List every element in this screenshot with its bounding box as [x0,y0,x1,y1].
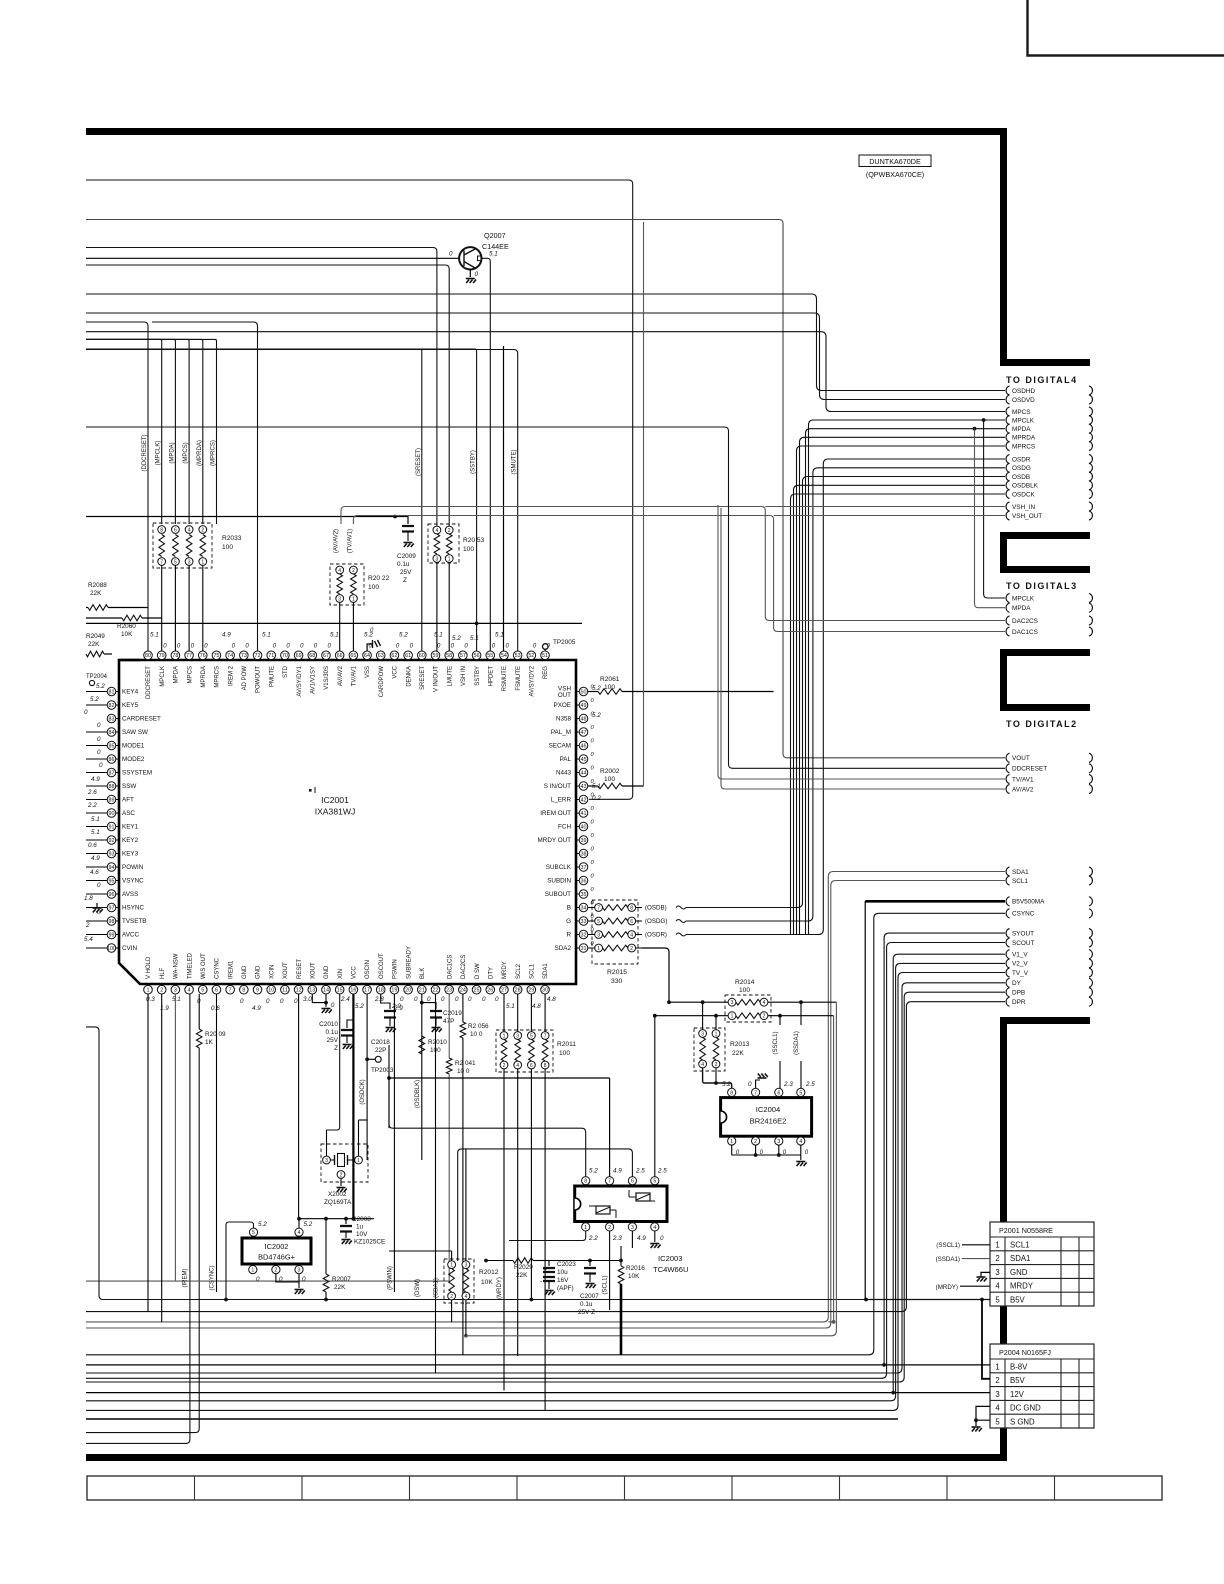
svg-text:1: 1 [352,596,355,602]
thick VCC column pin16 [352,994,354,1219]
svg-text:SYOUT: SYOUT [1012,930,1034,937]
wires MPCLK MPDA MPRDA MPRCS to DIGITAL4 [809,420,1006,935]
svg-text:19: 19 [391,988,397,994]
svg-text:34: 34 [581,905,587,911]
svg-text:0: 0 [400,996,404,1003]
svg-text:0: 0 [97,749,101,756]
svg-text:GND: GND [324,965,330,979]
svg-text:BD4746G+: BD4746G+ [258,1253,295,1262]
svg-text:85: 85 [109,743,115,749]
svg-text:1: 1 [357,1158,360,1164]
svg-text:POWIN: POWIN [122,864,144,871]
IC2001 IXA381WJ main IC body [119,660,576,984]
svg-text:MPCS: MPCS [1012,409,1030,416]
page corner box top right [1028,0,1224,56]
svg-text:0: 0 [455,996,459,1003]
Q2007 collector wire to pin55 column [482,258,491,651]
svg-text:8: 8 [730,1090,733,1096]
ground at left pin HSYNC [96,903,98,907]
resistor R2010 100 on pin21 column [419,1036,447,1054]
svg-text:41: 41 [581,811,587,817]
svg-text:R2002: R2002 [600,768,620,775]
wire V2_V riser [86,963,1005,1400]
svg-text:3: 3 [325,1158,328,1164]
R2013 bottoms to IC2004 pin8 [703,1068,732,1089]
svg-text:24: 24 [460,988,466,994]
svg-text:KEY1: KEY1 [122,824,139,831]
svg-text:OSDBLK: OSDBLK [1012,483,1039,490]
svg-text:HPDET: HPDET [488,666,494,687]
svg-text:40: 40 [581,824,587,830]
svg-text:AV1/V1SY: AV1/V1SY [310,666,316,694]
svg-text:100: 100 [604,776,615,783]
column x502 to pin54 [503,346,505,651]
wires y336-346 to pin79-75 columns MPCLK MPDA MPCS MPRDA MPRCS [86,339,162,524]
test point TP2005 [543,644,549,650]
svg-text:35: 35 [581,892,587,898]
resistor network R2011 100 (pins 27-30) [496,994,576,1072]
svg-text:SAW SW: SAW SW [122,729,148,736]
svg-text:61: 61 [405,653,411,659]
svg-text:65: 65 [350,653,356,659]
wire CSYNC riser [86,913,1005,1355]
svg-text:D SW: D SW [475,963,481,979]
wire DPR riser [86,1002,1005,1312]
svg-text:V1S/30S: V1S/30S [324,666,330,690]
svg-text:5.2: 5.2 [355,1003,364,1010]
IC2003 pin2 wire to SCL1 [609,1231,611,1310]
ground above pin 64 VSS [367,644,372,651]
svg-text:5.2: 5.2 [592,712,601,719]
wire SDA1 riser [86,872,1005,1322]
svg-text:330: 330 [611,978,623,985]
connector pin B5V500MA (TO DIGITAL2) [1006,897,1009,906]
svg-text:R2029: R2029 [514,1264,533,1271]
svg-text:2: 2 [448,528,451,534]
svg-text:CVIN: CVIN [122,945,137,952]
svg-text:10 0: 10 0 [470,1031,483,1038]
svg-text:(SSDA1): (SSDA1) [936,1256,960,1263]
svg-text:8: 8 [160,527,163,533]
svg-text:2: 2 [763,1014,766,1020]
wire TV_V riser [86,973,1005,1411]
svg-text:L_ERR: L_ERR [551,797,572,804]
svg-text:6: 6 [631,1179,634,1185]
net label (SSCL1) [779,1016,781,1025]
svg-text:5.1: 5.1 [172,996,181,1003]
svg-text:49: 49 [581,703,587,709]
svg-text:MPRCS: MPRCS [215,666,221,688]
Q2007 emitter ground [469,270,471,278]
svg-text:TP2005: TP2005 [553,639,576,646]
svg-text:0.1u: 0.1u [326,1029,339,1036]
svg-text:S GND: S GND [1010,1418,1035,1427]
svg-text:VSH_OUT: VSH_OUT [1012,513,1042,520]
svg-text:5.1: 5.1 [470,635,479,642]
IC2001 top pin voltage annotations [150,632,551,650]
svg-text:IREM1: IREM1 [228,960,234,979]
svg-text:1: 1 [995,1362,999,1371]
ground at P2004 pins 4-5 [976,1406,990,1420]
svg-text:16: 16 [350,988,356,994]
svg-text:100: 100 [463,546,474,553]
svg-text:43: 43 [581,784,587,790]
svg-text:46: 46 [581,743,587,749]
gray bus y1281 [86,1280,449,1282]
svg-text:Z: Z [403,577,407,584]
ground at P2001 pin3 [981,1272,990,1277]
svg-text:7: 7 [597,905,600,911]
svg-text:0: 0 [449,251,453,258]
wire bus y1419 [86,1418,898,1420]
svg-text:64: 64 [364,653,370,659]
svg-text:(SMUTE): (SMUTE) [512,450,518,475]
svg-text:0: 0 [266,998,270,1005]
wires OSDBLK OSDCK rows [794,485,1006,935]
wires into X2002 [326,1130,328,1156]
svg-text:4: 4 [436,528,439,534]
svg-text:POWOUT: POWOUT [256,666,262,693]
IC2001 top pins 80-51 with numbers and labels [144,651,550,699]
frame bracket between DIGITAL4 and DIGITAL3 [1000,532,1090,573]
svg-text:36: 36 [581,878,587,884]
svg-text:KEY2: KEY2 [122,837,139,844]
resistor R2056 100 on pin24 column [460,994,489,1355]
svg-text:7: 7 [229,988,232,994]
svg-text:IC2003: IC2003 [658,1254,683,1263]
svg-text:(DDCRESET): (DDCRESET) [142,434,148,471]
connector pin MPDA (TO DIGITAL3) [1006,603,1009,612]
connector pin DPR (TO DIGITAL2) [1006,997,1009,1006]
svg-text:10V: 10V [356,1231,368,1238]
svg-text:SDA2: SDA2 [555,945,572,952]
svg-text:4: 4 [995,1282,1000,1291]
svg-text:100: 100 [559,1050,570,1057]
svg-text:2: 2 [630,946,633,952]
svg-text:ZQ169TA: ZQ169TA [324,1199,352,1206]
svg-text:1: 1 [731,1014,734,1020]
capacitor C2008 1u 10V KZ1025CE [340,1216,385,1246]
svg-text:(OSDR): (OSDR) [645,932,667,939]
svg-text:OSDCK: OSDCK [1012,491,1035,498]
svg-text:2: 2 [160,988,163,994]
svg-text:R2016: R2016 [626,1265,645,1272]
svg-text:5.2: 5.2 [304,1221,313,1228]
svg-text:4.9: 4.9 [252,1005,261,1012]
svg-text:96: 96 [109,892,115,898]
svg-text:4: 4 [188,988,191,994]
svg-text:12: 12 [296,988,302,994]
connector pin SYOUT (TO DIGITAL2) [1006,929,1009,938]
svg-text:0: 0 [240,998,244,1005]
svg-text:AVSS: AVSS [122,891,138,898]
svg-text:56: 56 [474,653,480,659]
svg-text:45: 45 [581,757,587,763]
IC2004 BR2416E2 EEPROM [721,1098,812,1137]
wire y256 Q2007 base [86,257,459,259]
svg-text:0: 0 [748,1081,752,1088]
svg-text:(APF): (APF) [557,1285,574,1292]
wire to P2004 pin3 12V [86,1392,990,1394]
svg-text:OSDVD: OSDVD [1012,397,1035,404]
IC2001 bottom pins 1-30 with numbers and labels [144,946,550,994]
svg-text:80: 80 [145,653,151,659]
svg-text:66: 66 [337,653,343,659]
R2014 row wires [669,1001,728,1003]
svg-text:DDCRESET: DDCRESET [146,666,152,699]
svg-text:21: 21 [419,988,425,994]
svg-text:AD POW: AD POW [242,666,248,691]
svg-text:3: 3 [777,1139,780,1145]
svg-text:68: 68 [309,653,315,659]
resistor R2007 22K [323,1217,351,1302]
svg-text:51: 51 [542,653,548,659]
svg-text:0: 0 [302,1276,306,1283]
svg-text:KEY5: KEY5 [122,702,139,709]
svg-text:91: 91 [109,824,115,830]
svg-text:MPCLK: MPCLK [1012,595,1035,602]
frame right upper thick border [1000,128,1090,363]
wires feeding IC2003 from above [388,1045,390,1128]
svg-text:70: 70 [282,653,288,659]
frame bracket between DIGITAL3 and DIGITAL2 [1000,649,1090,711]
svg-text:AV/AV2: AV/AV2 [338,665,344,686]
connector pin MPRDA (TO DIGITAL4) [1006,433,1009,442]
svg-text:4.9: 4.9 [637,1235,646,1242]
svg-text:5.2: 5.2 [722,1081,731,1088]
svg-text:22K: 22K [516,1272,528,1279]
svg-text:5.2: 5.2 [589,1168,598,1175]
svg-text:5.1: 5.1 [262,632,271,639]
svg-text:SUBOUT: SUBOUT [545,891,571,898]
wire gray vertical x643 from y219 area down to R2002 [643,222,645,786]
columns below R2011 [503,1069,505,1391]
svg-text:VSH_IN: VSH_IN [1012,504,1035,511]
connector pin AV/AV2 (TO DIGITAL2) [1006,784,1009,793]
svg-text:CSYNC: CSYNC [215,957,221,979]
svg-text:VOUT: VOUT [1012,755,1030,762]
svg-text:RSMUTE: RSMUTE [502,666,508,691]
svg-text:X2002: X2002 [328,1191,347,1198]
svg-text:3.0: 3.0 [303,996,312,1003]
svg-text:SDA1: SDA1 [1012,869,1029,876]
svg-text:9: 9 [256,988,259,994]
svg-text:0: 0 [97,736,101,743]
svg-text:8: 8 [242,988,245,994]
connector pin OSDR (TO DIGITAL4) [1006,454,1009,463]
svg-text:R2011: R2011 [557,1041,576,1048]
svg-text:5: 5 [597,919,600,925]
svg-text:SUBREADY: SUBREADY [406,946,412,979]
svg-text:DPR: DPR [1012,999,1026,1006]
svg-text:75: 75 [213,653,219,659]
svg-text:25V: 25V [400,569,412,576]
svg-text:3: 3 [338,596,341,602]
svg-text:0: 0 [414,996,418,1003]
svg-text:PMUTE: PMUTE [269,666,275,687]
svg-text:2.4: 2.4 [340,996,350,1003]
capacitor C2007 0.1u 25V Z [578,1259,599,1316]
svg-text:VCC: VCC [352,966,358,979]
connector pin MPCS (TO DIGITAL4) [1006,407,1009,416]
svg-text:(PSWIN): (PSWIN) [387,1266,393,1290]
svg-text:0: 0 [99,762,103,769]
resistor network R2013 22K [694,1028,750,1071]
svg-text:89: 89 [109,797,115,803]
svg-text:0: 0 [97,722,101,729]
svg-text:(SSDA1): (SSDA1) [794,1031,800,1055]
svg-text:RESET: RESET [297,959,303,979]
wire IC2002 pin4 to pin12 column [298,1219,300,1228]
svg-text:1: 1 [995,1240,999,1249]
board name label DUNTKA670DE [859,155,931,167]
IC2001 bottom pin voltage annotations [146,996,556,1012]
svg-text:CARDRESET: CARDRESET [122,716,161,723]
svg-text:59: 59 [432,653,438,659]
svg-text:26: 26 [487,988,493,994]
svg-text:(QPWBXA670CE): (QPWBXA670CE) [866,170,924,179]
svg-text:VSH IN: VSH IN [461,666,467,686]
svg-text:54: 54 [501,653,507,659]
svg-text:4.8: 4.8 [532,1003,541,1010]
svg-text:R2013: R2013 [730,1041,750,1048]
svg-text:1: 1 [201,559,204,565]
svg-text:98: 98 [109,919,115,925]
wire y294 to OSDHD [86,294,1005,391]
svg-text:TIMELED: TIMELED [187,952,193,979]
capacitor C2018 22P on pin18 [371,994,403,1054]
wire to P2004 pin1 B-8V [86,1364,990,1366]
svg-text:22K: 22K [334,1284,346,1291]
IC2001 left pin voltage annotations [84,683,105,943]
svg-text:0: 0 [97,882,101,889]
svg-text:XCIN: XCIN [269,965,275,979]
svg-text:5.1: 5.1 [91,816,100,823]
connector pin OSDVD (TO DIGITAL4) [1006,395,1009,404]
svg-text:SCL1: SCL1 [1010,1240,1030,1249]
crystal X2002 ZQ169TA [321,1144,368,1206]
svg-text:(SCL1): (SCL1) [603,1275,609,1294]
svg-text:2: 2 [352,568,355,574]
frame thick vertical between P2001 and P2004 [1000,1305,1007,1345]
svg-text:R2012: R2012 [479,1269,499,1276]
svg-text:DDCRESET: DDCRESET [1012,766,1047,773]
svg-text:OSDR: OSDR [1012,456,1031,463]
svg-text:7: 7 [544,1033,547,1039]
svg-text:B5V: B5V [1010,1296,1026,1305]
resistor R2060 10K [86,615,582,638]
wire branch to pin80 DDCRESET column [86,322,148,651]
svg-text:(SSCL1): (SSCL1) [773,1031,779,1054]
svg-text:AV/SY/DY1: AV/SY/DY1 [297,665,303,696]
wire DPB riser [86,992,1005,1382]
svg-text:71: 71 [268,653,274,659]
svg-text:23: 23 [446,988,452,994]
svg-text:R2061: R2061 [600,676,620,683]
svg-text:0.1u: 0.1u [580,1301,593,1308]
svg-text:27: 27 [501,988,507,994]
svg-text:OSDHD: OSDHD [1012,388,1035,395]
svg-text:PAL: PAL [560,756,572,763]
svg-text:GND: GND [256,965,262,979]
svg-text:7: 7 [160,559,163,565]
wire SCOUT riser [86,943,1005,1379]
svg-text:C2023: C2023 [557,1261,576,1268]
svg-text:38: 38 [581,851,587,857]
svg-text:81: 81 [109,689,115,695]
capacitor C2023 10u 16V APF electrolytic [540,1261,576,1296]
net label (SSDA1) [800,1002,802,1025]
connector pin SCL1 (TO DIGITAL2) [1006,876,1009,885]
svg-text:C2008: C2008 [352,1216,371,1223]
svg-text:MRDY OUT: MRDY OUT [538,837,572,844]
svg-text:DAC1CS: DAC1CS [447,955,453,979]
svg-text:N443: N443 [556,770,572,777]
svg-text:1u: 1u [356,1224,364,1231]
svg-text:5.1: 5.1 [489,251,498,258]
svg-text:1.8: 1.8 [84,895,93,902]
capacitor C2009 0.1u 25V [86,515,416,584]
svg-text:C2019: C2019 [443,1010,462,1017]
svg-text:XOUT: XOUT [283,962,289,979]
svg-text:V1_V: V1_V [1012,952,1028,959]
svg-text:SECAM: SECAM [549,743,571,750]
resistor network R2033 100 (pins 79-76) [153,523,242,651]
svg-text:6: 6 [174,527,177,533]
svg-text:2.5: 2.5 [805,1081,815,1088]
svg-text:57: 57 [460,653,466,659]
connector table P2001 N0558RE [990,1222,1094,1306]
svg-text:3: 3 [174,988,177,994]
junction dots MPCLK MPDA to DIGITAL3 [982,418,986,422]
svg-text:SSYSTEM: SSYSTEM [122,770,152,777]
capacitor C2019 47P on pin21 [420,994,462,1160]
svg-text:2: 2 [85,922,90,929]
svg-text:18: 18 [378,988,384,994]
svg-text:25V Z: 25V Z [578,1309,595,1316]
svg-text:32: 32 [581,932,587,938]
IC2003 pin1 wire [509,1231,586,1241]
svg-text:0: 0 [256,1276,260,1283]
svg-text:TO DIGITAL4: TO DIGITAL4 [1006,375,1078,385]
svg-text:IC2001: IC2001 [321,795,349,805]
svg-text:C2010: C2010 [319,1021,338,1028]
svg-text:(OSDBLK): (OSDBLK) [415,1080,421,1108]
svg-text:3: 3 [597,932,600,938]
connector pin CSYNC (TO DIGITAL2) [1006,909,1009,918]
svg-text:6: 6 [777,1090,780,1096]
svg-text:R2033: R2033 [222,535,242,542]
svg-text:7: 7 [754,1090,757,1096]
svg-text:53: 53 [515,653,521,659]
connector pin MPCLK (TO DIGITAL4) [1006,415,1009,424]
svg-text:R2014: R2014 [735,979,755,986]
IC2003 pin8 wire [389,1078,586,1177]
svg-text:99: 99 [109,932,115,938]
svg-text:(AV/AV2): (AV/AV2) [334,529,340,553]
svg-text:5.1: 5.1 [506,1003,515,1010]
wire corner vertical x199 [86,1048,199,1433]
resistor R2088 22K [86,582,148,610]
svg-text:5.1: 5.1 [150,632,159,639]
IC2001 right pins 50-31 with numbers and labels [538,685,595,953]
svg-text:V HOLD: V HOLD [146,956,152,979]
svg-text:4: 4 [465,1294,468,1300]
column pin2 [161,994,163,1322]
svg-text:92: 92 [109,838,115,844]
svg-text:(SSTBY): (SSTBY) [471,450,477,474]
resistor R2029 22K [484,1258,549,1279]
